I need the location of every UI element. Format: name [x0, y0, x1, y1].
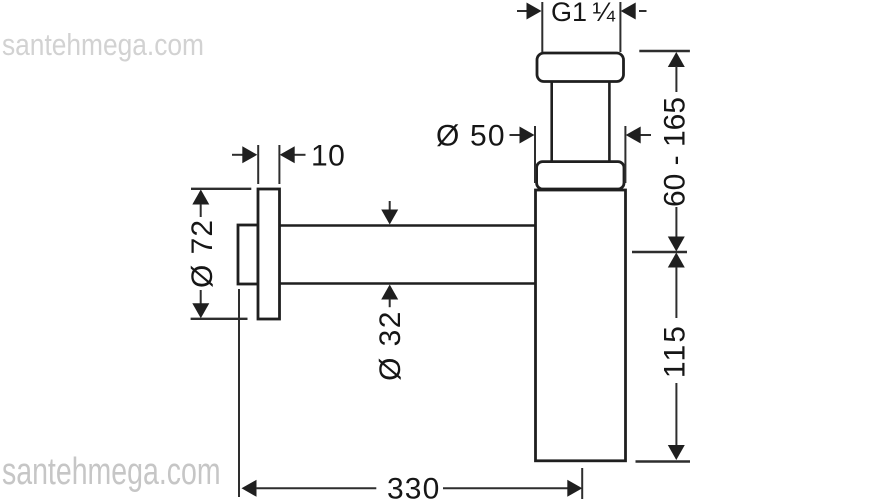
svg-text:Ø 50: Ø 50: [436, 120, 506, 153]
arrow 60-165 down: [668, 237, 685, 252]
dim G1 right tail: [639, 10, 647, 12]
svg-text:115: 115: [659, 324, 692, 378]
arrow D50 left: [520, 127, 535, 144]
dim 330 right segment: [443, 487, 568, 489]
dim D32 lower stem: [389, 299, 391, 308]
dim 60-165 lower stem: [675, 207, 677, 237]
label 60-165: [659, 97, 692, 207]
svg-text:santehmega.com: santehmega.com: [2, 28, 204, 62]
extension line D50 right: [624, 126, 626, 183]
watermark bottom-left santehmega.com: [2, 451, 221, 493]
tick body bottom: [636, 460, 691, 462]
top flange G1 1/4 connector: [537, 53, 624, 82]
label D72: [186, 219, 219, 288]
wall pipe stub: [238, 225, 258, 284]
arrow D32 up: [381, 285, 398, 300]
arrow 60-165 up: [668, 52, 685, 67]
svg-text:330: 330: [387, 473, 440, 500]
arrow 330 right: [567, 480, 582, 497]
extension line 10 left: [257, 145, 259, 184]
extension line 10 right: [278, 145, 280, 184]
label G1 1/4: [551, 0, 615, 27]
arrow D72 up: [192, 190, 209, 205]
extension line 330 right: [581, 468, 583, 499]
dim G1 left tail: [517, 10, 528, 12]
arrow 115 down: [668, 445, 685, 460]
dim D72 lower stem: [200, 290, 202, 304]
dim 115 upper stem: [675, 267, 677, 318]
wall rosette: [258, 189, 280, 319]
extension line D72 bottom: [191, 318, 248, 320]
extension line G1 right: [619, 2, 621, 52]
watermark top-left santehmega.com: [2, 28, 204, 62]
extension line D72 top: [191, 188, 251, 190]
arrow G1 left: [527, 3, 542, 20]
label 115: [659, 324, 692, 378]
dim 115 lower stem: [675, 383, 677, 446]
siphon body cup: [536, 190, 626, 461]
svg-text:Ø 72: Ø 72: [186, 219, 219, 288]
extension line D50 left: [534, 126, 536, 183]
trap nut flange: [537, 162, 624, 189]
dim 10 left tail: [232, 154, 243, 156]
extension line G1 left: [541, 2, 543, 52]
svg-text:G1 ¼: G1 ¼: [551, 0, 615, 27]
dim 10 right tail: [295, 154, 306, 156]
arrow 330 left: [242, 480, 257, 497]
label D32: [374, 310, 407, 381]
dim D32 upper stem: [389, 201, 391, 210]
label 10: [311, 139, 345, 172]
horizontal pipe top edge: [280, 224, 536, 227]
svg-text:santehmega.com: santehmega.com: [2, 451, 221, 493]
svg-text:Ø 32: Ø 32: [374, 310, 407, 381]
dim 60-165 upper stem: [675, 66, 677, 92]
arrow D72 down: [192, 303, 209, 318]
arrow 115 up: [668, 253, 685, 268]
dim D50 left tail: [510, 134, 521, 136]
dim D72 upper stem: [200, 204, 202, 217]
horizontal pipe bottom edge: [280, 282, 536, 285]
dim D50 right tail: [641, 134, 652, 136]
svg-text:60 - 165: 60 - 165: [659, 97, 692, 207]
dim 330 left segment: [256, 487, 376, 489]
arrow 10 left: [242, 146, 257, 163]
arrow D32 down: [381, 210, 398, 225]
arrow 10 right: [280, 146, 295, 163]
extension line 330 left: [238, 289, 240, 497]
tick pipe axis: [632, 251, 687, 253]
label 330: [387, 473, 440, 500]
arrow D50 right: [626, 127, 641, 144]
tick 60-165 top: [639, 50, 690, 52]
arrow G1 right: [621, 3, 636, 20]
label D50: [436, 120, 506, 153]
riser neck pipe: [552, 82, 610, 162]
svg-text:10: 10: [311, 139, 345, 172]
